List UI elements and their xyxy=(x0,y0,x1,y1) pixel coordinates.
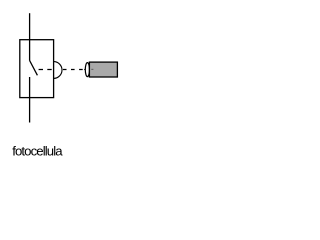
photocell sensor body xyxy=(89,62,117,77)
wire bottom lead xyxy=(29,98,31,123)
actuator dashed link (inside box) xyxy=(39,69,52,71)
lens semicircle on box edge xyxy=(54,62,62,79)
svg-text:fotocellula: fotocellula xyxy=(12,144,63,159)
switch blade (NO contact) xyxy=(30,61,38,76)
contact box S1 xyxy=(20,40,54,98)
actuator dashed link (outside box) xyxy=(63,69,84,71)
switch upper stub xyxy=(29,40,31,61)
switch lower stub xyxy=(29,77,31,98)
dash touching lens xyxy=(84,69,86,71)
photocell lens ellipse xyxy=(85,63,89,77)
wire top lead xyxy=(29,13,31,40)
dash mark on body xyxy=(91,68,93,70)
